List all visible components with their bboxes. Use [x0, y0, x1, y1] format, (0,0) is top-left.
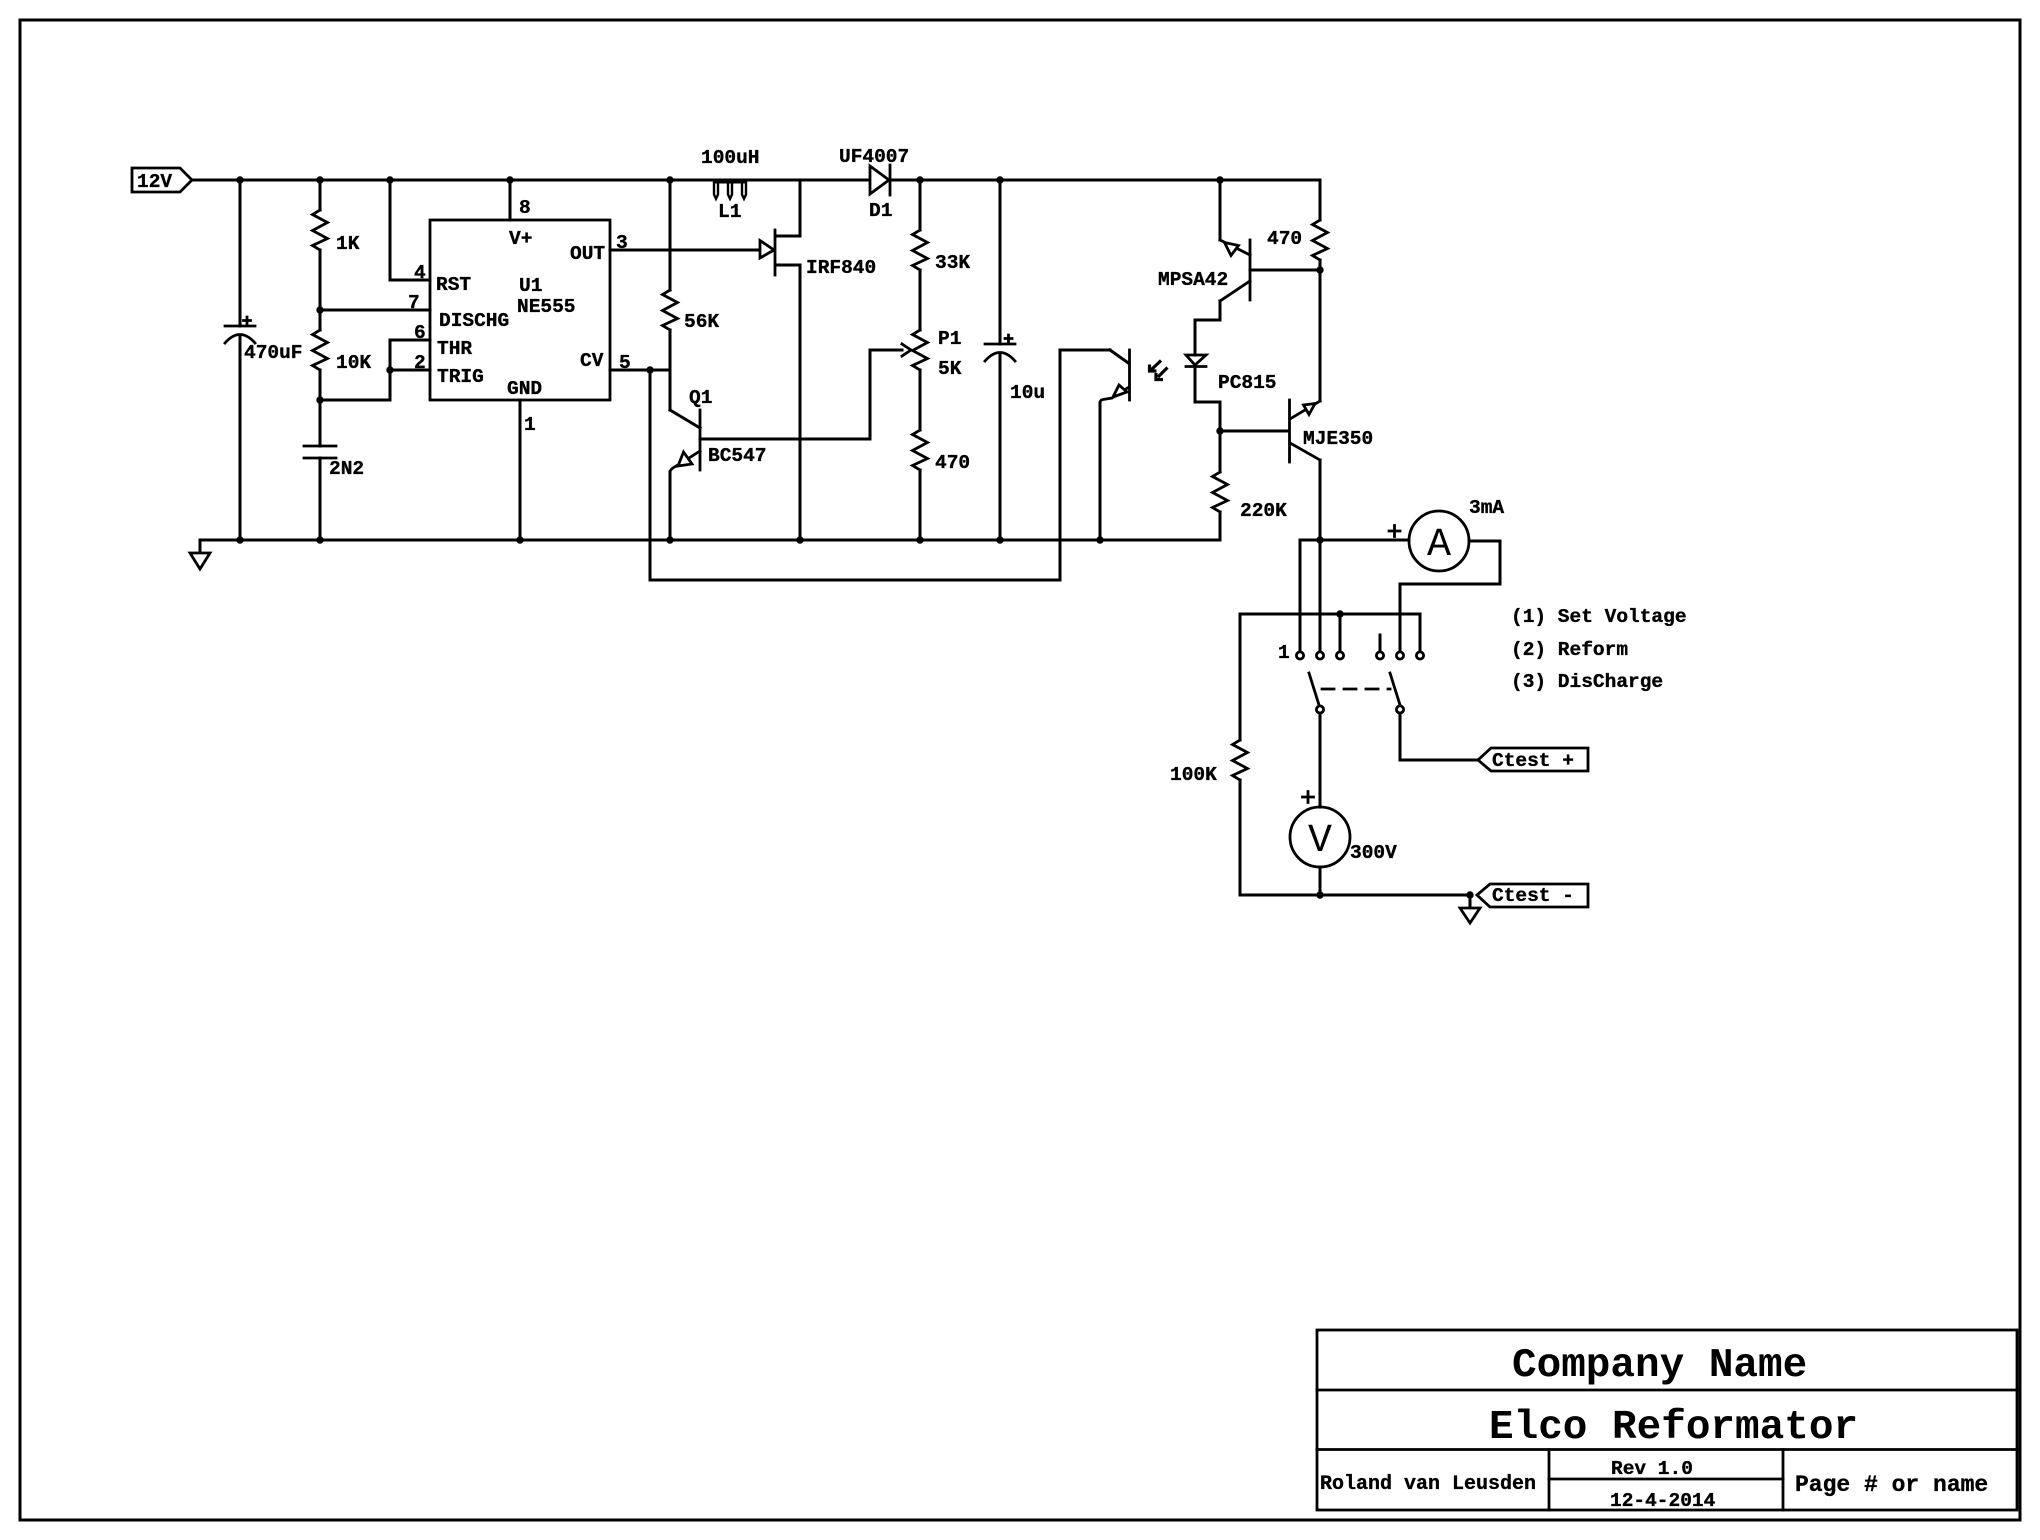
- resistor R 33K: [913, 180, 971, 330]
- transistor Q2 IRF840: [760, 180, 876, 540]
- svg-text:(2) Reform: (2) Reform: [1511, 639, 1628, 661]
- optocoupler U PC815 LED: [1186, 320, 1277, 431]
- wire 12V rail left segment (flag to D1 anode): [192, 179, 868, 182]
- wire MJE350 collector to ammeter: [1300, 539, 1409, 542]
- svg-text:MPSA42: MPSA42: [1158, 269, 1228, 291]
- pin stub 6: [1419, 614, 1422, 652]
- capacitor C 2N2: [304, 400, 364, 540]
- node Ctest + flag: [1478, 748, 1588, 772]
- svg-text:1: 1: [524, 414, 536, 436]
- svg-text:56K: 56K: [684, 311, 719, 333]
- switch contact pin 1: [1296, 652, 1303, 659]
- pin stub 2: [1319, 540, 1322, 652]
- junction gnd/IRF840 source: [796, 536, 803, 543]
- wire 100K top net: [1240, 614, 1420, 740]
- svg-text:A: A: [1427, 523, 1451, 568]
- junction voltmeter minus: [1316, 891, 1323, 898]
- svg-text:Page # or name: Page # or name: [1795, 1472, 1988, 1498]
- junction 12V/470uF: [236, 176, 243, 183]
- switch contact pin 4: [1376, 652, 1383, 659]
- switch contact pin 2: [1316, 652, 1323, 659]
- resistor R 10K: [313, 310, 372, 400]
- resistor R 220K: [1213, 431, 1288, 540]
- wire DISCHG pin7 to 1K/10K junction: [320, 309, 430, 312]
- pin stub 1: [1299, 540, 1302, 652]
- svg-text:PC815: PC815: [1218, 372, 1277, 394]
- switch contact pin 5: [1396, 652, 1403, 659]
- svg-text:100K: 100K: [1170, 764, 1217, 786]
- svg-text:33K: 33K: [935, 252, 970, 274]
- svg-text:UF4007: UF4007: [839, 146, 909, 168]
- svg-text:GND: GND: [507, 378, 542, 400]
- wire Q1 base to P1 wiper: [700, 350, 902, 439]
- svg-text:Roland van Leusden: Roland van Leusden: [1320, 1473, 1536, 1496]
- svg-text:470uF: 470uF: [244, 342, 303, 364]
- junction THR/TRIG: [386, 366, 393, 373]
- junction gnd/10u: [996, 536, 1003, 543]
- svg-text:L1: L1: [718, 201, 741, 223]
- wire 12V rail right segment (D1 cathode to 470 corner): [891, 179, 1320, 182]
- svg-text:Ctest +: Ctest +: [1492, 750, 1574, 772]
- junction gnd/470uF: [236, 536, 243, 543]
- svg-text:CV: CV: [580, 350, 604, 372]
- svg-text:10K: 10K: [336, 352, 371, 374]
- junction 12V/1K: [316, 176, 323, 183]
- svg-text:Q1: Q1: [689, 387, 712, 409]
- junction Ctest- ground: [1466, 891, 1473, 898]
- diode D1 UF4007: [839, 146, 909, 222]
- wiper arrowhead: [902, 344, 911, 356]
- svg-text:4: 4: [414, 262, 426, 284]
- svg-text:(1) Set Voltage: (1) Set Voltage: [1511, 606, 1687, 628]
- junction gnd/Q1 emitter: [666, 536, 673, 543]
- title block: [1317, 1330, 2017, 1512]
- potentiometer P1 5K: [913, 328, 962, 430]
- switch contact pin 6: [1416, 652, 1423, 659]
- ground symbol right: [1460, 895, 1480, 923]
- ammeter M 3mA: [1389, 497, 1504, 571]
- junction CV node: [646, 366, 653, 373]
- inductor L1 100uH: [701, 147, 760, 223]
- voltmeter M 300V: [1290, 792, 1397, 868]
- junction 1K/10K/DISCHG: [316, 306, 323, 313]
- wire switch right common to Ctest+: [1400, 713, 1478, 760]
- svg-text:IRF840: IRF840: [806, 257, 876, 279]
- pin stub 4: [1379, 635, 1382, 652]
- resistor R 470 (divider): [913, 430, 971, 540]
- switch contact pin 3: [1336, 652, 1343, 659]
- svg-text:Rev 1.0: Rev 1.0: [1611, 1458, 1693, 1480]
- junction gnd/pin1: [516, 536, 523, 543]
- ground rail: [200, 539, 1220, 542]
- svg-text:470: 470: [935, 452, 970, 474]
- svg-text:470: 470: [1267, 228, 1302, 250]
- resistor R 470 (MPSA42 collector load): [1267, 180, 1328, 270]
- svg-text:(3) DisCharge: (3) DisCharge: [1511, 671, 1663, 693]
- junction gnd/2N2: [316, 536, 323, 543]
- switch gang dashed link: [1322, 688, 1390, 691]
- svg-text:V+: V+: [509, 228, 532, 250]
- node 12V supply flag: [132, 168, 192, 193]
- svg-text:TRIG: TRIG: [437, 366, 484, 388]
- switch levers: [1309, 673, 1319, 705]
- svg-text:P1: P1: [938, 328, 961, 350]
- junction 12V/pin8: [506, 176, 513, 183]
- junction 12V/RST: [386, 176, 393, 183]
- capacitor C 10u: [985, 180, 1045, 540]
- svg-text:6: 6: [414, 322, 426, 344]
- svg-text:1: 1: [1278, 642, 1290, 664]
- pin stub 5: [1399, 584, 1402, 652]
- ground symbol left: [190, 540, 210, 569]
- optocoupler U PC815 phototransistor: [1100, 350, 1130, 540]
- node Ctest - flag: [1477, 884, 1588, 907]
- svg-text:12-4-2014: 12-4-2014: [1610, 1490, 1716, 1512]
- svg-text:Ctest -: Ctest -: [1492, 885, 1574, 907]
- svg-text:7: 7: [408, 292, 420, 314]
- light arrows: [1150, 361, 1168, 380]
- transistor Q1 BC547: [670, 387, 767, 540]
- svg-text:THR: THR: [437, 338, 472, 360]
- svg-text:Company Name: Company Name: [1512, 1343, 1807, 1389]
- svg-text:1K: 1K: [336, 233, 360, 255]
- svg-text:5K: 5K: [938, 358, 962, 380]
- wire CV node down and around to optocoupler collector: [650, 350, 1110, 580]
- wire TRIG junction down to 10K/2N2 junction: [320, 370, 390, 400]
- wire OUT pin3 to IRF840 gate: [610, 249, 760, 252]
- wire ammeter to switch pin5: [1400, 541, 1500, 584]
- svg-text:U1: U1: [519, 275, 542, 297]
- svg-text:Elco Reformator: Elco Reformator: [1489, 1405, 1858, 1451]
- switch common contact right: [1396, 706, 1403, 713]
- IC U1 NE555 timer: [430, 220, 610, 400]
- transistor Q3 MPSA42: [1158, 180, 1320, 355]
- junction 10K/2N2: [316, 396, 323, 403]
- switch common contact left: [1316, 706, 1323, 713]
- junction gnd/470 divider: [916, 536, 923, 543]
- junction 12V/56K: [666, 176, 673, 183]
- wire RST pin4 to 12V rail: [390, 180, 430, 280]
- junction rail/33K: [916, 176, 923, 183]
- resistor R 100K: [1170, 740, 1248, 895]
- wire bottom measurement net: [1240, 894, 1470, 897]
- svg-text:D1: D1: [869, 200, 892, 222]
- svg-text:V: V: [1308, 819, 1332, 864]
- junction rail/MPSA42 emitter: [1216, 176, 1223, 183]
- svg-text:12V: 12V: [137, 171, 172, 193]
- svg-text:8: 8: [519, 197, 531, 219]
- junction gnd/opto emitter: [1096, 536, 1103, 543]
- junction 470/MPSA42 base/MJE350 emitter: [1316, 266, 1323, 273]
- pin 8: [509, 180, 512, 220]
- junction switch pin3 net: [1336, 610, 1343, 617]
- junction MJE350 collector/ammeter wire: [1316, 536, 1323, 543]
- svg-text:MJE350: MJE350: [1303, 428, 1373, 450]
- pin stub 3: [1339, 614, 1342, 652]
- svg-text:2: 2: [414, 352, 426, 374]
- wire THR pin6 loop: [390, 340, 430, 370]
- junction rail/10u: [996, 176, 1003, 183]
- svg-text:2N2: 2N2: [329, 458, 364, 480]
- svg-text:100uH: 100uH: [701, 147, 760, 169]
- svg-text:220K: 220K: [1240, 500, 1287, 522]
- svg-text:RST: RST: [436, 274, 471, 296]
- svg-text:300V: 300V: [1350, 842, 1397, 864]
- transistor Q4 MJE350: [1220, 270, 1373, 540]
- wire switch left common to voltmeter: [1319, 713, 1322, 807]
- resistor R 1K: [313, 180, 360, 310]
- svg-text:OUT: OUT: [570, 243, 605, 265]
- resistor R 56K: [663, 180, 720, 410]
- junction LED cathode/220K/MJE350 base: [1216, 427, 1223, 434]
- svg-text:3mA: 3mA: [1469, 497, 1504, 519]
- svg-text:BC547: BC547: [708, 445, 767, 467]
- svg-text:NE555: NE555: [517, 296, 576, 318]
- pin 1: [519, 400, 522, 540]
- wire CV pin5: [610, 369, 670, 372]
- wire TRIG pin2: [390, 369, 430, 372]
- svg-text:10u: 10u: [1010, 382, 1045, 404]
- svg-text:DISCHG: DISCHG: [439, 310, 509, 332]
- capacitor C 470uF: [225, 180, 303, 540]
